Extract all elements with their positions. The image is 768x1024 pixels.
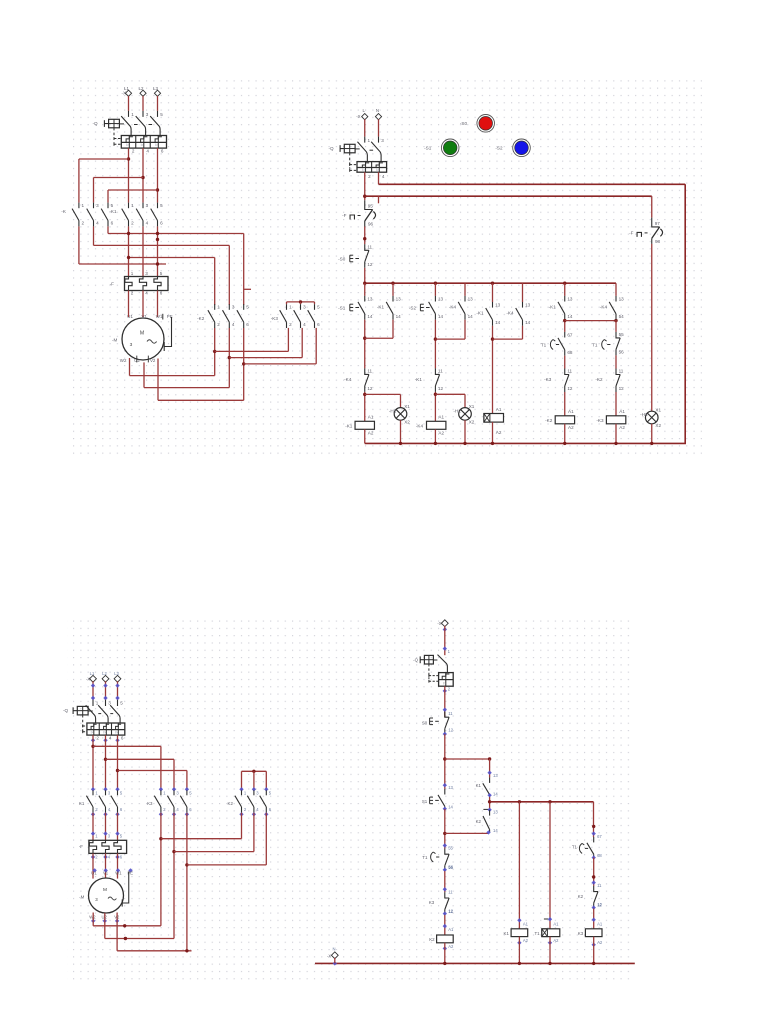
svg-text:13: 13: [493, 773, 498, 778]
svg-text:-F: -F: [342, 213, 347, 218]
svg-text:-S1: -S1: [338, 305, 346, 310]
svg-text:3: 3: [96, 203, 99, 208]
svg-text:5: 5: [120, 701, 123, 706]
svg-text:A2: A2: [523, 938, 529, 943]
svg-text:12: 12: [567, 386, 573, 391]
svg-text:T1: T1: [534, 931, 540, 936]
svg-text:14: 14: [493, 828, 498, 833]
svg-text:X1: X1: [469, 404, 475, 409]
svg-text:97: 97: [655, 221, 661, 226]
svg-text:5: 5: [160, 271, 163, 276]
svg-text:13: 13: [619, 296, 625, 301]
svg-text:A2: A2: [368, 431, 374, 436]
svg-text:1: 1: [131, 203, 134, 208]
svg-text:12: 12: [367, 262, 373, 267]
svg-text:14: 14: [525, 320, 531, 325]
svg-text:-K4: -K4: [506, 311, 514, 316]
svg-text:-H1: -H1: [389, 408, 397, 413]
svg-text:K2: K2: [578, 894, 584, 899]
svg-text:4: 4: [109, 735, 112, 740]
svg-text:K2: K2: [476, 819, 482, 824]
svg-text:-F: -F: [110, 281, 115, 286]
svg-text:12: 12: [367, 386, 373, 391]
svg-text:4: 4: [382, 174, 385, 179]
svg-text:1: 1: [289, 305, 292, 310]
svg-text:W1: W1: [115, 870, 122, 875]
svg-text:A2: A2: [619, 425, 625, 430]
svg-text:13: 13: [493, 810, 498, 815]
svg-text:-Q: -Q: [93, 121, 99, 126]
svg-text:11: 11: [448, 711, 453, 716]
svg-text:2: 2: [131, 221, 134, 226]
svg-text:6: 6: [121, 735, 124, 740]
svg-text:X2: X2: [404, 419, 410, 424]
svg-text:-M: -M: [79, 895, 84, 900]
svg-text:-Q: -Q: [329, 146, 335, 151]
svg-text:13: 13: [468, 296, 474, 301]
svg-text:14: 14: [438, 314, 444, 319]
svg-text:X1: X1: [655, 408, 661, 413]
svg-text:11: 11: [367, 369, 372, 374]
svg-text:T1: T1: [592, 342, 598, 347]
svg-text:13: 13: [396, 296, 402, 301]
svg-text:-K4: -K4: [344, 377, 352, 382]
svg-text:-K2: -K2: [595, 377, 603, 382]
svg-text:4: 4: [145, 291, 148, 296]
svg-text:11: 11: [619, 369, 624, 374]
svg-text:-H2: -H2: [453, 408, 461, 413]
svg-text:3: 3: [130, 342, 133, 348]
svg-text:6: 6: [317, 322, 320, 327]
svg-text:-K1: -K1: [377, 305, 385, 310]
svg-text:3: 3: [108, 701, 111, 706]
svg-text:5: 5: [160, 112, 163, 117]
svg-text:6: 6: [160, 221, 163, 226]
svg-text:I>: I>: [91, 730, 94, 734]
svg-text:K3: K3: [429, 900, 435, 905]
svg-text:4: 4: [232, 322, 235, 327]
svg-text:98: 98: [655, 239, 661, 244]
svg-text:U2: U2: [134, 358, 140, 363]
svg-text:N: N: [332, 947, 335, 952]
svg-text:1: 1: [131, 112, 134, 117]
svg-text:I>: I>: [362, 168, 365, 172]
svg-text:13: 13: [438, 296, 444, 301]
svg-text:1: 1: [368, 138, 371, 143]
svg-text:12: 12: [448, 728, 453, 733]
svg-text:-X: -X: [327, 954, 331, 959]
svg-text:I>: I>: [115, 730, 118, 734]
svg-text:-X: -X: [356, 114, 360, 119]
svg-text:-X: -X: [122, 91, 126, 96]
svg-text:-K1: -K1: [476, 311, 484, 316]
svg-text:K3: K3: [578, 931, 584, 936]
svg-text:S0: S0: [422, 720, 428, 725]
svg-text:-K2: -K2: [545, 418, 553, 423]
svg-text:5: 5: [246, 305, 249, 310]
svg-text:6: 6: [111, 221, 114, 226]
svg-text:X2: X2: [469, 419, 475, 424]
svg-text:-S0: -S0: [460, 121, 468, 126]
svg-text:1: 1: [96, 701, 99, 706]
svg-text:A2: A2: [553, 938, 559, 943]
svg-text:-K4: -K4: [416, 423, 424, 428]
svg-text:M: M: [103, 887, 107, 893]
svg-text:-F: -F: [629, 231, 634, 236]
svg-text:K1: K1: [476, 783, 482, 788]
svg-text:-S0: -S0: [338, 256, 346, 261]
svg-text:2: 2: [96, 735, 99, 740]
svg-text:L2: L2: [102, 671, 107, 676]
svg-text:X2: X2: [655, 423, 661, 428]
svg-text:K1: K1: [504, 931, 510, 936]
svg-text:4: 4: [303, 322, 306, 327]
svg-text:S1: S1: [422, 799, 428, 804]
svg-text:1: 1: [82, 203, 85, 208]
svg-text:A1: A1: [553, 921, 559, 926]
svg-text:12: 12: [597, 903, 602, 908]
svg-text:-K3: -K3: [596, 418, 604, 423]
svg-text:-K3: -K3: [271, 316, 279, 321]
svg-text:U1: U1: [127, 314, 133, 319]
svg-text:U1: U1: [91, 870, 97, 875]
svg-text:-K4: -K4: [600, 305, 608, 310]
svg-text:-X: -X: [437, 621, 441, 626]
svg-text:13: 13: [367, 296, 373, 301]
svg-text:M: M: [140, 331, 144, 337]
svg-text:5: 5: [111, 203, 114, 208]
svg-text:13: 13: [525, 302, 531, 307]
svg-text:11: 11: [448, 889, 453, 894]
svg-text:I>: I>: [443, 682, 446, 686]
svg-text:I>: I>: [126, 143, 129, 147]
svg-text:A2: A2: [496, 430, 502, 435]
svg-text:54: 54: [619, 314, 625, 319]
svg-text:K3: K3: [147, 801, 153, 806]
svg-text:-K4: -K4: [449, 305, 457, 310]
svg-text:14: 14: [495, 320, 501, 325]
svg-text:A1: A1: [496, 407, 502, 412]
svg-text:A1: A1: [597, 921, 603, 926]
svg-text:A1: A1: [368, 415, 374, 420]
svg-text:4: 4: [146, 221, 149, 226]
svg-text:14: 14: [396, 314, 402, 319]
svg-text:68: 68: [597, 853, 602, 858]
svg-text:5: 5: [160, 203, 163, 208]
svg-text:L3: L3: [114, 671, 119, 676]
svg-text:-M: -M: [112, 337, 118, 342]
svg-text:-Q: -Q: [413, 658, 418, 663]
svg-text:13: 13: [567, 296, 573, 301]
svg-text:T1: T1: [572, 845, 578, 850]
svg-text:-F: -F: [79, 844, 83, 849]
svg-text:L1: L1: [90, 671, 95, 676]
svg-text:2: 2: [132, 148, 135, 153]
svg-text:A1: A1: [568, 409, 574, 414]
svg-text:14: 14: [468, 314, 474, 319]
svg-text:95: 95: [368, 204, 374, 209]
svg-text:-K3: -K3: [544, 377, 552, 382]
svg-text:12: 12: [438, 386, 444, 391]
svg-text:4: 4: [96, 221, 99, 226]
svg-text:V1: V1: [142, 314, 148, 319]
svg-text:A2: A2: [438, 431, 444, 436]
svg-text:-K1: -K1: [345, 423, 353, 428]
svg-text:K1: K1: [79, 801, 85, 806]
svg-text:11: 11: [597, 883, 602, 888]
svg-text:55: 55: [448, 846, 453, 851]
svg-text:5: 5: [317, 305, 320, 310]
svg-text:3: 3: [146, 203, 149, 208]
svg-text:56: 56: [448, 865, 453, 870]
svg-text:56: 56: [619, 350, 625, 355]
svg-text:-Q: -Q: [63, 708, 69, 713]
svg-text:A1: A1: [619, 409, 625, 414]
svg-text:-K2: -K2: [197, 316, 205, 321]
svg-text:13: 13: [495, 302, 501, 307]
svg-text:55: 55: [619, 332, 625, 337]
svg-text:V2: V2: [150, 358, 156, 363]
svg-text:-S2: -S2: [409, 305, 417, 310]
svg-text:3: 3: [146, 112, 149, 117]
svg-text:K2: K2: [429, 937, 435, 942]
svg-text:-K1: -K1: [109, 209, 117, 214]
svg-text:12: 12: [619, 386, 625, 391]
svg-text:I>: I>: [155, 143, 158, 147]
svg-text:2: 2: [217, 322, 220, 327]
svg-text:-S2: -S2: [495, 145, 503, 150]
svg-text:14: 14: [567, 314, 573, 319]
svg-text:2: 2: [82, 221, 85, 226]
svg-text:67: 67: [567, 332, 573, 337]
svg-text:-K1: -K1: [415, 377, 423, 382]
svg-text:T1: T1: [422, 855, 428, 860]
svg-text:I>: I>: [103, 730, 106, 734]
svg-text:1: 1: [217, 305, 220, 310]
svg-text:W2: W2: [120, 358, 127, 363]
svg-text:I>: I>: [376, 168, 379, 172]
svg-text:13: 13: [448, 785, 453, 790]
svg-text:V1: V1: [103, 870, 109, 875]
svg-text:A1: A1: [438, 415, 444, 420]
svg-text:6: 6: [161, 148, 164, 153]
svg-text:3: 3: [303, 305, 306, 310]
svg-text:K2: K2: [228, 801, 234, 806]
svg-text:-K1: -K1: [549, 305, 557, 310]
svg-text:A1: A1: [448, 927, 454, 932]
svg-text:11: 11: [367, 245, 372, 250]
svg-text:A2: A2: [448, 944, 454, 949]
svg-text:A2: A2: [597, 940, 603, 945]
svg-text:14: 14: [448, 804, 453, 809]
svg-text:W1: W1: [156, 314, 163, 319]
svg-text:2: 2: [368, 174, 371, 179]
svg-text:A1: A1: [523, 921, 529, 926]
svg-text:6: 6: [160, 291, 163, 296]
svg-text:I>: I>: [141, 143, 144, 147]
svg-text:-S1: -S1: [424, 145, 432, 150]
svg-text:N: N: [376, 108, 379, 113]
svg-text:3: 3: [381, 138, 384, 143]
svg-text:68: 68: [567, 350, 573, 355]
svg-text:12: 12: [448, 909, 453, 914]
svg-text:6: 6: [246, 322, 249, 327]
svg-text:14: 14: [367, 314, 373, 319]
svg-text:2: 2: [289, 322, 292, 327]
svg-text:X1: X1: [404, 404, 410, 409]
svg-text:4: 4: [146, 148, 149, 153]
svg-text:14: 14: [493, 791, 498, 796]
svg-text:3: 3: [232, 305, 235, 310]
svg-text:1: 1: [131, 271, 134, 276]
svg-text:11: 11: [567, 369, 572, 374]
svg-text:2: 2: [131, 291, 134, 296]
svg-text:67: 67: [597, 834, 602, 839]
svg-text:T1: T1: [541, 342, 547, 347]
svg-text:3: 3: [145, 271, 148, 276]
svg-text:A2: A2: [568, 425, 574, 430]
svg-text:-X: -X: [86, 676, 90, 681]
svg-text:96: 96: [368, 222, 374, 227]
svg-text:11: 11: [438, 369, 443, 374]
svg-text:-H3: -H3: [640, 412, 648, 417]
